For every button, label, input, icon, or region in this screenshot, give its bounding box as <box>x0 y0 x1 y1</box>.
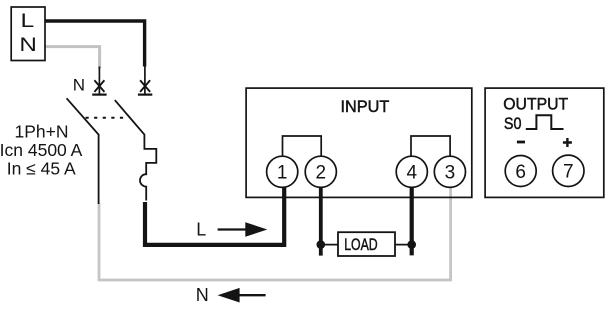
svg-text:LOAD: LOAD <box>344 235 378 254</box>
terminal 6 <box>505 156 536 187</box>
contact X right (L pole) <box>138 67 152 95</box>
svg-text:1: 1 <box>277 163 288 184</box>
LOAD box <box>338 232 395 256</box>
source box L/N <box>11 7 45 61</box>
breaker label text <box>0 121 83 178</box>
svg-text:N: N <box>73 76 85 95</box>
svg-text:OUTPUT: OUTPUT <box>503 95 568 114</box>
jumper bracket terminals 4-3 <box>411 136 450 156</box>
wire N gray: breaker bottom to terminal 3 return path <box>99 187 451 281</box>
svg-text:INPUT: INPUT <box>341 97 390 116</box>
svg-text:S0: S0 <box>504 114 522 133</box>
breaker N-pole blade (diagonal) <box>67 98 99 204</box>
wire L feed: breaker output down, right, up to terminal 1 <box>145 187 284 245</box>
svg-text:4: 4 <box>407 163 418 184</box>
pulse waveform symbol <box>526 115 564 129</box>
svg-text:Icn 4500 A: Icn 4500 A <box>0 140 83 160</box>
svg-text:L: L <box>196 220 206 240</box>
svg-text:2: 2 <box>316 163 327 184</box>
svg-text:1Ph+N: 1Ph+N <box>15 121 69 141</box>
terminal 1 <box>267 156 298 187</box>
svg-text:3: 3 <box>445 163 456 184</box>
junction node at terminal 2 branch <box>317 240 326 249</box>
junction node at terminal 4 branch <box>407 240 416 249</box>
INPUT box <box>246 88 472 197</box>
jumper bracket terminals 1-2 <box>283 136 322 156</box>
wire terminal 4 down with stub <box>410 187 414 255</box>
terminal 3 <box>434 156 465 187</box>
svg-text:N: N <box>196 285 209 305</box>
wire LOAD right connector <box>395 244 412 246</box>
svg-text:L: L <box>21 10 35 32</box>
wire LOAD left connector <box>321 244 338 246</box>
svg-text:7: 7 <box>563 162 574 183</box>
svg-text:N: N <box>19 34 37 56</box>
terminal 7 <box>553 155 584 186</box>
OUTPUT box <box>485 88 604 197</box>
svg-text:In ≤ 45 A: In ≤ 45 A <box>7 159 76 179</box>
breaker linkage dotted line <box>86 117 129 119</box>
label minus <box>517 141 525 144</box>
arrow L (right) <box>218 228 247 230</box>
terminal 2 <box>305 156 336 187</box>
wire L: source box to breaker L-pole contact <box>45 21 145 67</box>
breaker L-pole blade and trip element <box>115 100 157 200</box>
arrow N (left) <box>238 294 266 296</box>
svg-text:6: 6 <box>515 162 526 183</box>
label plus <box>563 138 572 147</box>
contact X left (N pole) <box>92 67 106 95</box>
terminal 4 <box>396 156 427 187</box>
wire N gray: source box N to breaker N-pole contact <box>45 47 100 69</box>
wire terminal 2 down with stub <box>319 187 323 256</box>
